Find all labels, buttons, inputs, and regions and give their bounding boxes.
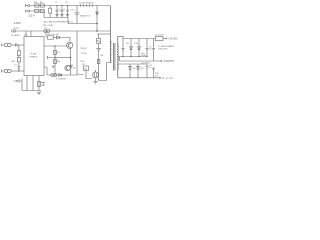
svg-text:D9: D9 <box>126 43 129 45</box>
wire Q2 emitter <box>95 78 97 81</box>
svg-text:T1: T1 <box>110 42 113 44</box>
current sense R3 <box>96 47 101 52</box>
diode D5 on HV node <box>96 12 99 15</box>
junction dot B+ HV <box>96 30 97 31</box>
svg-text:C1: C1 <box>55 2 58 4</box>
diode D9 <box>130 39 133 57</box>
capacitor C12 <box>152 68 155 78</box>
wire secondary gnd rail A <box>120 56 147 58</box>
capacitor C9 <box>145 39 148 57</box>
capacitor C4 X-cap <box>75 6 80 24</box>
svg-text:115V: 115V <box>14 21 22 25</box>
wire emitter Q1 <box>70 48 72 75</box>
resistor R4 <box>54 59 57 63</box>
svg-text:D11: D11 <box>132 68 136 70</box>
svg-text:+12 VDC: +12 VDC <box>168 39 178 41</box>
svg-text:COM RTN: COM RTN <box>164 61 175 63</box>
svg-text:R9 47k: R9 47k <box>81 48 87 50</box>
capacitor C8 <box>121 39 124 57</box>
diode D7 <box>54 50 57 54</box>
resistor R1 <box>48 36 54 39</box>
svg-text:4700u: 4700u <box>141 55 146 57</box>
capacitor C6 <box>16 43 17 46</box>
svg-text:T2 DRIVE: T2 DRIVE <box>56 79 66 81</box>
box regulator U2 <box>84 66 89 71</box>
svg-text:C13 .01: C13 .01 <box>81 53 88 55</box>
wire x77 HV drop <box>77 31 84 75</box>
left input jack J1 <box>2 43 12 46</box>
test point TP2 <box>47 30 50 33</box>
capacitor C7 <box>17 62 20 71</box>
svg-text:.1: .1 <box>63 9 66 11</box>
wire output rail V2 <box>118 77 164 78</box>
test point TP1 <box>44 30 47 33</box>
svg-text:R4: R4 <box>57 61 61 63</box>
transformer T1 secondary winding <box>117 36 118 78</box>
wire feedback to IC <box>48 56 56 59</box>
junction dot J2 <box>18 70 19 71</box>
svg-text:C5: C5 <box>88 15 92 17</box>
svg-text:-12 VDC: -12 VDC <box>165 78 174 80</box>
junction dot F2 <box>61 5 62 6</box>
svg-text:R8: R8 <box>101 55 104 57</box>
junction dot A4 <box>146 56 147 57</box>
junction dot A1 <box>122 56 123 57</box>
IC U1 box <box>24 37 44 76</box>
svg-text:431: 431 <box>84 68 87 70</box>
wire vertical divider chain <box>54 46 56 75</box>
wire top AC line <box>30 5 110 7</box>
svg-text:470: 470 <box>155 75 159 77</box>
wire bottom AC line <box>30 11 44 18</box>
capacitor C1 <box>55 6 58 18</box>
junction dot divider <box>54 57 55 58</box>
diode D8 <box>59 74 62 77</box>
svg-text:AC LINE FILTER (EMI SECT): AC LINE FILTER (EMI SECT) <box>44 20 73 23</box>
IC pin drive <box>44 66 54 75</box>
wire drive line <box>47 74 77 76</box>
wire secondary low tap <box>118 63 147 65</box>
wire B+ rail <box>15 30 110 32</box>
arrow R7 a <box>41 82 45 83</box>
IC pin Vcc <box>25 31 27 37</box>
wire output rail V1 <box>123 38 155 40</box>
svg-text:IC2: IC2 <box>82 64 86 66</box>
left input jack J2 <box>2 69 12 72</box>
ground primary <box>37 92 41 94</box>
wire secondary top tap <box>118 36 123 38</box>
transistor Q3 <box>65 65 73 71</box>
svg-text:+310V: +310V <box>13 28 20 30</box>
wire Q1 base <box>44 45 67 47</box>
junction dot F3 <box>67 5 68 6</box>
svg-text:D7: D7 <box>57 52 61 54</box>
svg-text:C2: C2 <box>65 2 68 4</box>
wire filter bottom rail <box>44 18 97 24</box>
svg-text:Q3: Q3 <box>73 68 77 70</box>
svg-text:D12: D12 <box>140 68 145 70</box>
drive transformer winding circles <box>51 74 57 77</box>
diode D10 <box>138 39 141 57</box>
crystal Y1 <box>14 79 20 83</box>
IC bottom pin 2 <box>32 76 34 91</box>
resistor R2 filter <box>49 6 52 18</box>
IC bottom pin 1 <box>26 76 28 91</box>
diode D12 <box>137 64 140 78</box>
arrow R7 b <box>41 84 45 85</box>
svg-text:D10: D10 <box>134 43 139 45</box>
svg-text:115 V: 115 V <box>29 14 35 17</box>
fuse F1 <box>35 4 39 7</box>
wire R1-D1 <box>54 37 57 39</box>
ground Q2 <box>94 81 98 83</box>
svg-text:R1 2.2k: R1 2.2k <box>48 34 56 36</box>
wire base drive branch <box>45 31 47 38</box>
wire J1 to IC <box>11 44 24 46</box>
diode D6 <box>56 36 59 39</box>
svg-text:L2 10uH: L2 10uH <box>155 34 164 36</box>
svg-text:D1-D4 1N4007: D1-D4 1N4007 <box>79 2 94 4</box>
wire output arrow <box>163 38 167 39</box>
junction dot base chain <box>54 45 55 46</box>
svg-text:C7: C7 <box>14 65 18 67</box>
wire primary return <box>99 53 111 81</box>
wire D1 to Q1 collector <box>60 38 71 43</box>
transformer T1 primary winding <box>110 6 111 63</box>
svg-text:D6: D6 <box>56 34 60 36</box>
AC plug P1 top <box>25 4 29 7</box>
switch transistor Q4 <box>97 34 101 47</box>
capacitor C10 <box>152 39 155 62</box>
svg-text:B+ BUS: B+ BUS <box>12 35 20 37</box>
transistor Q2 <box>93 70 99 78</box>
capacitor C3 <box>66 6 69 18</box>
wire J2 to IC <box>11 70 24 72</box>
resistor R6 <box>17 55 20 61</box>
junction dot A2 <box>130 56 131 57</box>
resistor R8 <box>97 60 100 64</box>
IC bottom pin 3 <box>38 76 40 91</box>
diode D11 <box>129 64 132 78</box>
wire crystal to bus <box>19 79 22 91</box>
svg-text:R6: R6 <box>12 61 16 63</box>
svg-text:TP1 +310V: TP1 +310V <box>43 25 55 27</box>
inductor L1 bottom winding 2 <box>40 9 44 12</box>
wire ground rail V1 <box>120 60 162 61</box>
svg-text:1.0: 1.0 <box>149 49 153 51</box>
capacitor C2 <box>60 6 63 18</box>
wire U2 to Q2 <box>86 71 93 79</box>
inductor L1 bottom winding <box>35 9 39 12</box>
svg-text:1.0: 1.0 <box>149 67 153 69</box>
transistor Q1 <box>67 42 73 48</box>
junction dot A3 <box>138 56 139 57</box>
junction dot emitter tie <box>70 57 71 58</box>
wire secondary mid tap <box>118 57 120 62</box>
resistor R5 <box>17 45 20 55</box>
junction dot HV-filter <box>96 23 97 24</box>
svg-text:R12: R12 <box>81 61 84 63</box>
svg-text:CIRCUITS: CIRCUITS <box>158 49 168 51</box>
capacitor C11 <box>145 64 148 78</box>
svg-text:C3 .1: C3 .1 <box>70 10 76 12</box>
svg-text:PWM IC: PWM IC <box>30 56 39 58</box>
AC plug P2 bottom <box>25 10 29 13</box>
IC pin ref <box>30 31 32 37</box>
bridge rectifier D1-D4 ticks <box>81 4 93 6</box>
inductor L2 <box>155 36 163 40</box>
resistor R7 <box>38 81 41 86</box>
inductor L1 top winding <box>40 4 44 7</box>
junction dot F1 <box>56 5 57 6</box>
wire bottom bus <box>22 90 41 92</box>
svg-text:TL494: TL494 <box>30 53 37 55</box>
node B+ terminal <box>12 30 15 33</box>
svg-text:C4: C4 <box>44 28 48 30</box>
wire gate line <box>97 33 110 35</box>
wire HV node vertical <box>96 6 98 32</box>
wire cross tie <box>55 57 71 59</box>
transformer T1 core <box>113 43 115 71</box>
